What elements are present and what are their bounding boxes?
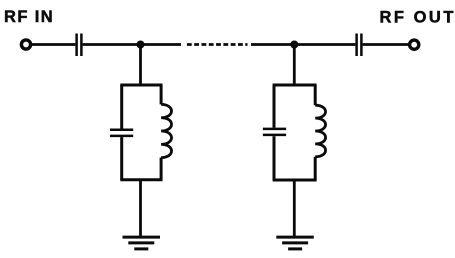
- svg-text:RF OUT: RF OUT: [380, 9, 455, 27]
- svg-text:RF IN: RF IN: [4, 8, 54, 26]
